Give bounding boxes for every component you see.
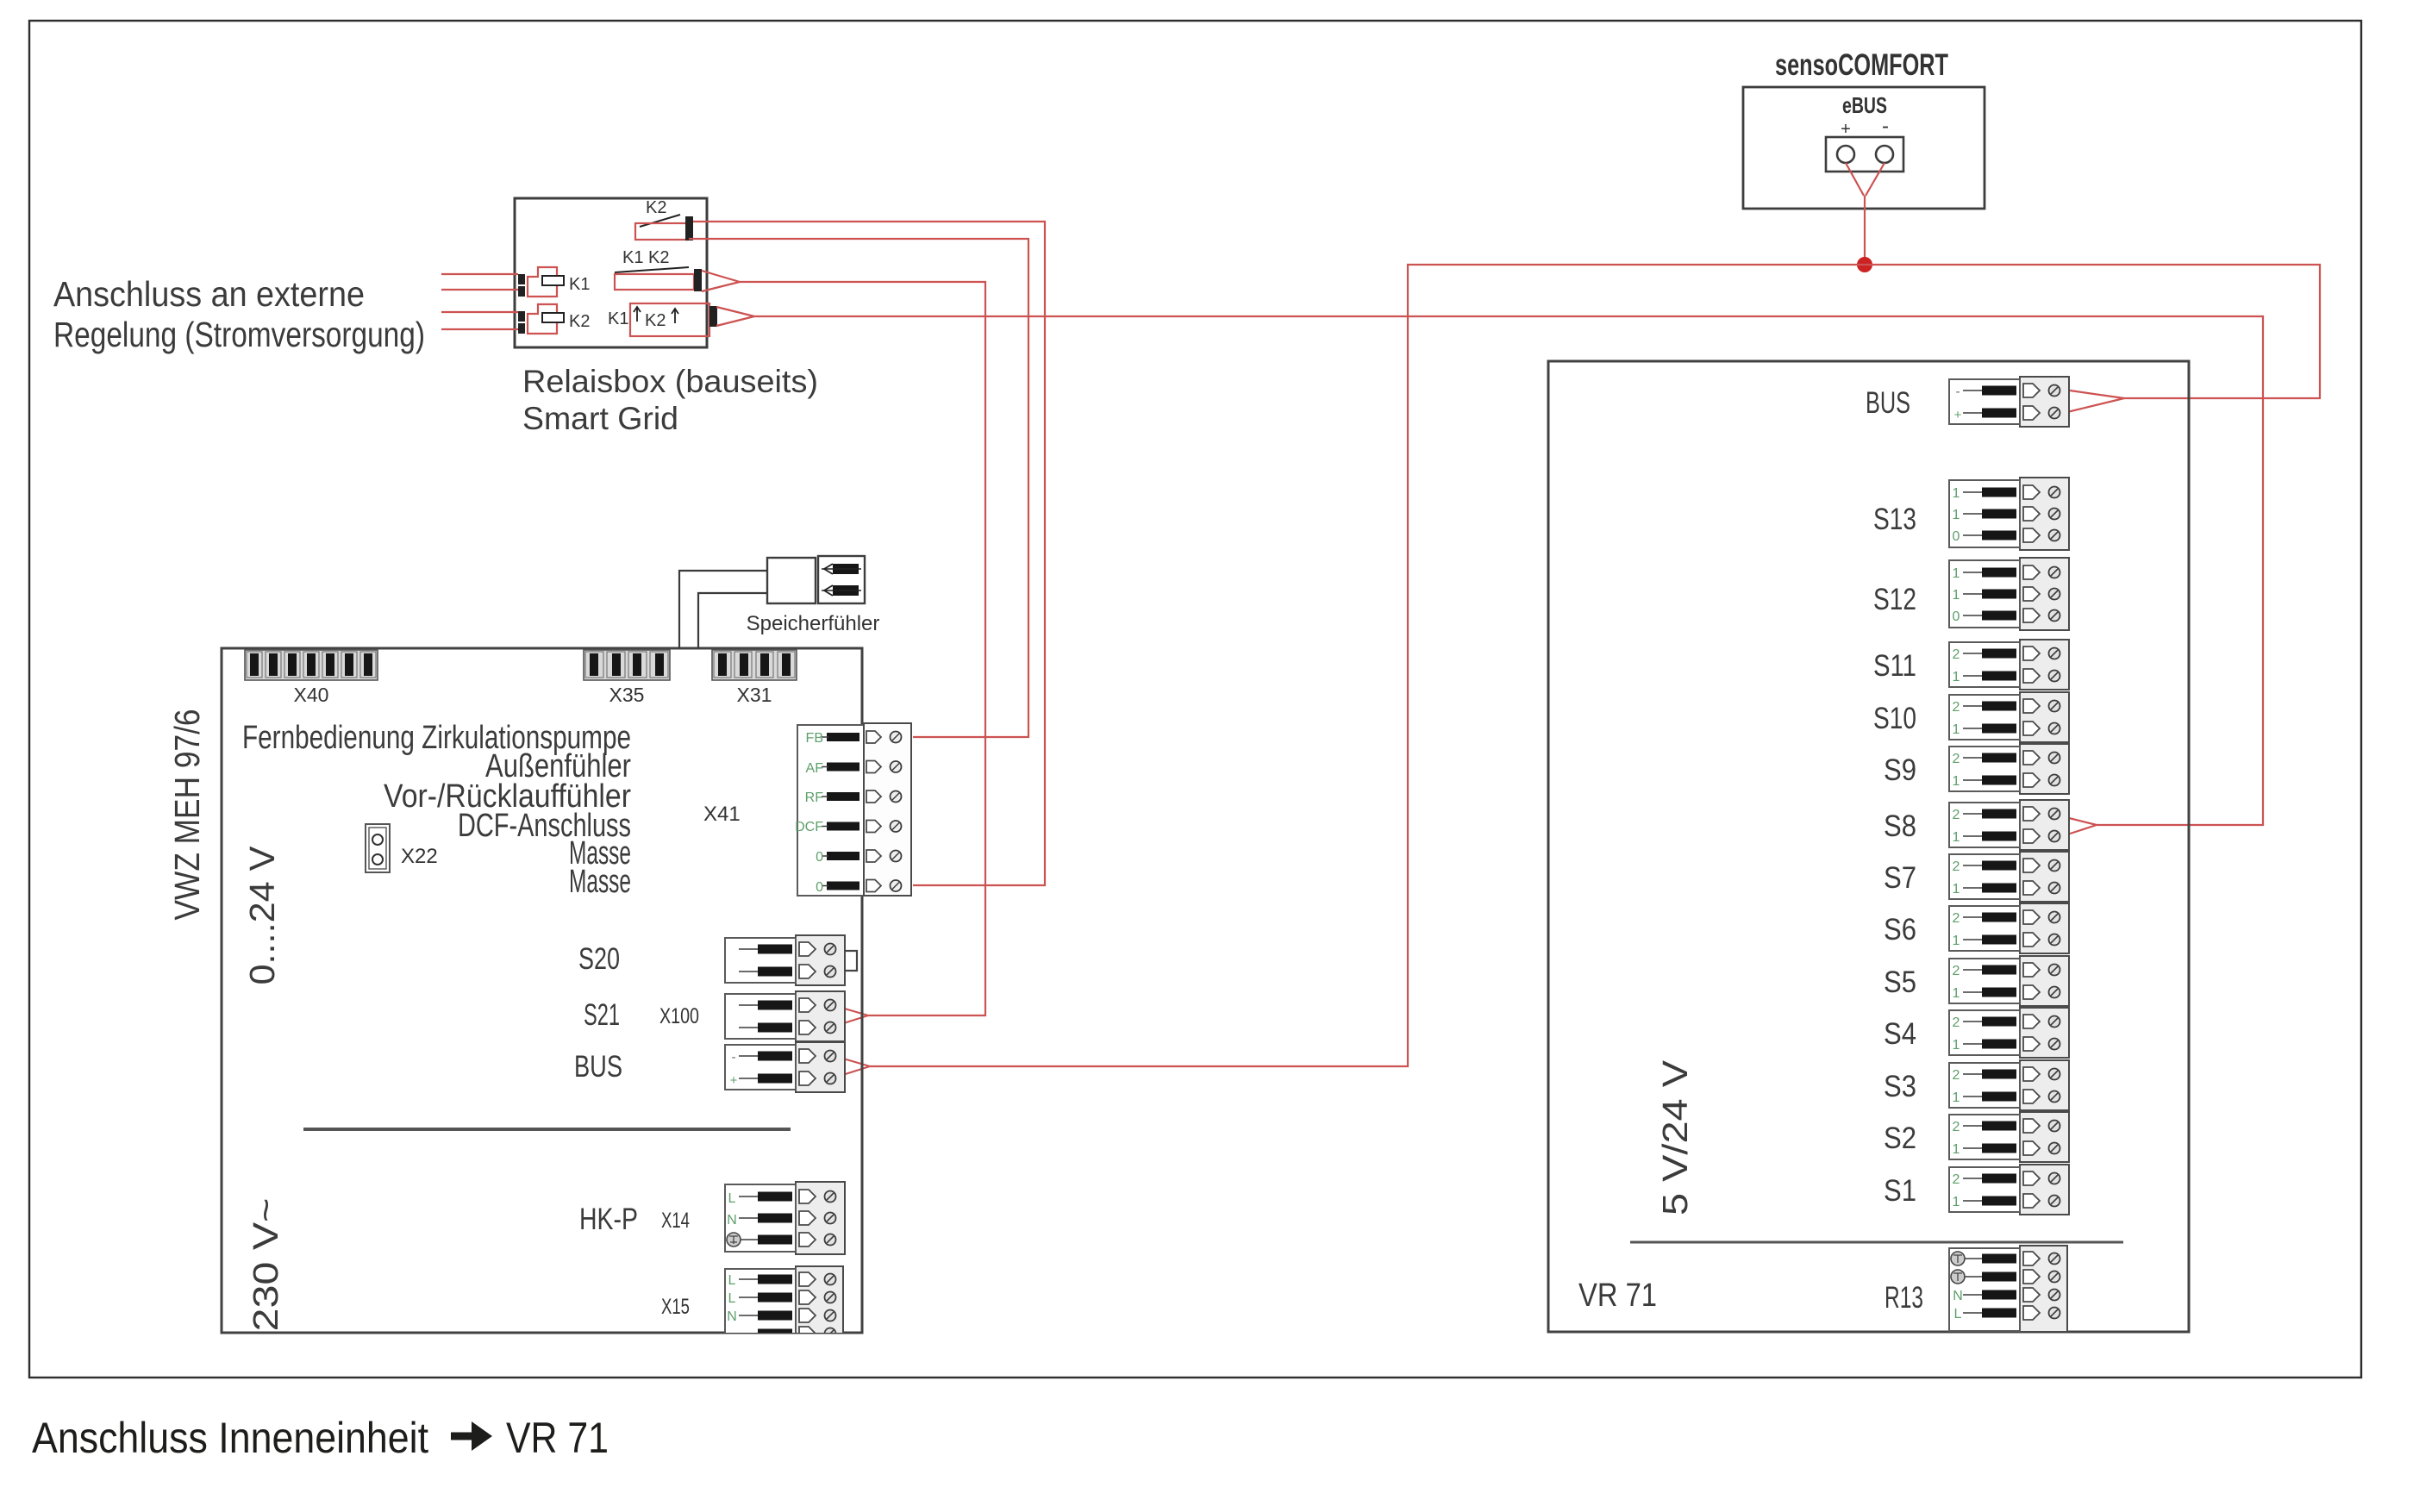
relay contact K1/K2 (bottom) xyxy=(630,303,709,336)
svg-text:1: 1 xyxy=(1953,830,1960,845)
svg-text:S7: S7 xyxy=(1884,861,1916,895)
svg-text:BUS: BUS xyxy=(574,1050,622,1084)
svg-text:1: 1 xyxy=(1953,1142,1960,1157)
svg-text:K2: K2 xyxy=(645,311,666,330)
relay coil K2 xyxy=(518,311,525,322)
svg-text:BUS: BUS xyxy=(1866,386,1910,420)
svg-text:2: 2 xyxy=(1953,1172,1960,1187)
svg-text:S6: S6 xyxy=(1884,913,1916,947)
svg-text:1: 1 xyxy=(1953,882,1960,897)
svg-text:X22: X22 xyxy=(401,845,438,868)
wire: relay middle to S21 xyxy=(702,271,985,1027)
svg-text:1: 1 xyxy=(1953,722,1960,737)
svg-text:X41: X41 xyxy=(703,803,741,826)
svg-text:S5: S5 xyxy=(1884,965,1916,999)
svg-text:Anschluss Inneneinheit: Anschluss Inneneinheit xyxy=(32,1414,428,1462)
svg-text:S4: S4 xyxy=(1884,1017,1916,1051)
svg-text:Anschluss an externe: Anschluss an externe xyxy=(53,274,365,314)
svg-text:VWZ MEH 97/6: VWZ MEH 97/6 xyxy=(167,709,207,921)
svg-text:Masse: Masse xyxy=(569,864,631,900)
5V divider xyxy=(1630,1241,2123,1244)
svg-text:0: 0 xyxy=(1953,609,1960,624)
svg-text:VR 71: VR 71 xyxy=(1578,1278,1657,1314)
svg-text:1: 1 xyxy=(1953,986,1960,1001)
svg-text:R13: R13 xyxy=(1885,1281,1923,1315)
wire: relay top K2 lower to X41 row1 FB xyxy=(689,239,1028,737)
svg-text:1: 1 xyxy=(1953,934,1960,948)
svg-text:K2: K2 xyxy=(646,198,666,217)
wire: relay top K2 upper to X41 row6 xyxy=(693,222,1045,885)
Speicherfuehler connector xyxy=(679,571,767,648)
svg-text:N: N xyxy=(727,1213,737,1228)
eBUS terminal block xyxy=(1826,137,1903,172)
svg-text:2: 2 xyxy=(1953,808,1960,822)
svg-text:X35: X35 xyxy=(609,684,645,706)
svg-text:-: - xyxy=(1955,384,1960,399)
svg-text:2: 2 xyxy=(1953,964,1960,978)
svg-text:N: N xyxy=(727,1309,737,1324)
svg-text:X100: X100 xyxy=(659,1004,699,1028)
svg-text:S12: S12 xyxy=(1873,583,1916,616)
svg-text:X40: X40 xyxy=(294,684,329,706)
svg-text:K1 K2: K1 K2 xyxy=(622,248,669,267)
svg-text:S3: S3 xyxy=(1884,1070,1916,1103)
svg-text:2: 2 xyxy=(1953,752,1960,766)
svg-text:VR 71: VR 71 xyxy=(506,1414,609,1462)
svg-text:HK-P: HK-P xyxy=(579,1203,638,1236)
svg-text:DCF: DCF xyxy=(795,820,823,834)
svg-text:S8: S8 xyxy=(1884,809,1916,843)
svg-text:1: 1 xyxy=(1953,1038,1960,1053)
svg-text:S13: S13 xyxy=(1873,503,1916,536)
node: eBUS junction xyxy=(1857,257,1872,272)
svg-text:-: - xyxy=(731,1050,735,1065)
svg-text:X15: X15 xyxy=(661,1295,690,1319)
svg-text:L: L xyxy=(728,1191,736,1206)
svg-text:0: 0 xyxy=(816,880,823,895)
svg-text:230 V~: 230 V~ xyxy=(246,1198,285,1332)
svg-text:-: - xyxy=(1882,115,1889,138)
svg-text:Relaisbox (bauseits): Relaisbox (bauseits) xyxy=(522,364,818,399)
svg-text:S10: S10 xyxy=(1873,702,1916,735)
connector X40 xyxy=(245,650,378,680)
svg-text:+: + xyxy=(1841,120,1851,139)
connector X35 xyxy=(584,650,670,680)
svg-text:S21: S21 xyxy=(584,998,620,1032)
svg-text:0....24 V: 0....24 V xyxy=(242,846,282,985)
wire: relay bottom to S8 (VR 71) xyxy=(716,307,2263,836)
svg-text:X31: X31 xyxy=(737,684,772,706)
svg-text:1: 1 xyxy=(1953,1195,1960,1209)
wire: eBUS to junction xyxy=(1846,163,1885,265)
svg-text:1: 1 xyxy=(1953,774,1960,789)
connector X31 xyxy=(712,650,797,680)
svg-text:S11: S11 xyxy=(1873,649,1916,683)
svg-text:2: 2 xyxy=(1953,1120,1960,1134)
svg-text:1: 1 xyxy=(1953,566,1960,581)
230V divider xyxy=(303,1128,791,1131)
svg-text:1: 1 xyxy=(1953,508,1960,522)
svg-text:K2: K2 xyxy=(569,312,590,331)
svg-text:2: 2 xyxy=(1953,859,1960,874)
svg-text:+: + xyxy=(1954,408,1962,422)
svg-text:sensoCOMFORT: sensoCOMFORT xyxy=(1775,48,1948,82)
svg-text:L: L xyxy=(728,1273,736,1288)
VR 71 box xyxy=(1548,361,2189,1332)
svg-text:1: 1 xyxy=(1953,486,1960,501)
svg-text:Speicherfühler: Speicherfühler xyxy=(747,612,880,635)
svg-text:2: 2 xyxy=(1953,911,1960,926)
svg-text:AF: AF xyxy=(806,761,824,776)
svg-text:Smart Grid: Smart Grid xyxy=(522,401,678,436)
svg-text:L: L xyxy=(1954,1307,1962,1321)
svg-text:1: 1 xyxy=(1953,588,1960,603)
svg-text:S9: S9 xyxy=(1884,753,1916,787)
svg-text:X14: X14 xyxy=(661,1209,690,1233)
wire stubs to external control xyxy=(441,273,518,275)
svg-text:2: 2 xyxy=(1953,1015,1960,1030)
svg-text:2: 2 xyxy=(1953,647,1960,662)
svg-text:2: 2 xyxy=(1953,700,1960,715)
svg-text:S1: S1 xyxy=(1884,1174,1916,1208)
VWZ MEH 97/6 box xyxy=(222,648,862,1333)
svg-text:Regelung (Stromversorgung): Regelung (Stromversorgung) xyxy=(53,315,425,354)
svg-text:FB: FB xyxy=(806,731,823,746)
svg-text:0: 0 xyxy=(1953,529,1960,544)
svg-text:K1: K1 xyxy=(608,309,628,328)
wire: VWZ BUS to eBUS junction and VR 71 BUS xyxy=(834,265,2320,1078)
svg-text:S2: S2 xyxy=(1884,1122,1916,1155)
svg-text:1: 1 xyxy=(1953,670,1960,684)
svg-text:L: L xyxy=(728,1291,736,1306)
svg-text:S20: S20 xyxy=(578,942,620,976)
svg-text:2: 2 xyxy=(1953,1068,1960,1083)
svg-text:+: + xyxy=(730,1073,738,1088)
svg-text:5 V/24 V: 5 V/24 V xyxy=(1655,1059,1695,1215)
connector X22 xyxy=(366,824,390,872)
svg-text:RF: RF xyxy=(805,790,824,805)
svg-text:N: N xyxy=(1953,1289,1963,1303)
svg-text:K1: K1 xyxy=(569,275,590,294)
svg-text:1: 1 xyxy=(1953,1090,1960,1105)
relaisbox outline xyxy=(515,198,707,347)
relay coil K1 xyxy=(518,274,525,284)
svg-text:0: 0 xyxy=(816,850,823,865)
svg-text:eBUS: eBUS xyxy=(1842,92,1887,118)
